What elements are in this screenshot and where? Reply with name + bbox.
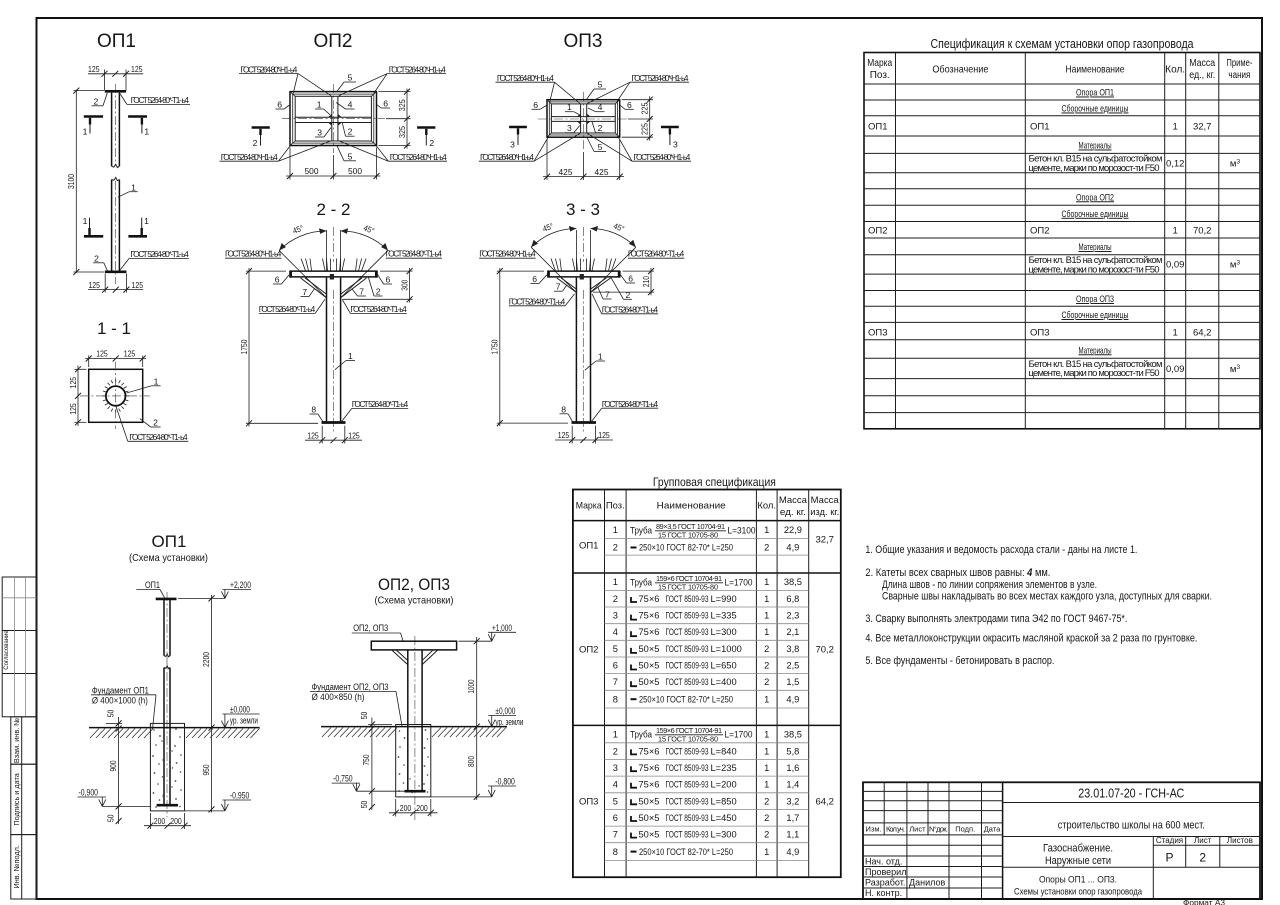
svg-text:+2,200: +2,200 xyxy=(230,580,251,590)
svg-text:210: 210 xyxy=(641,276,651,287)
svg-text:200: 200 xyxy=(416,803,428,813)
weld fillets at center xyxy=(577,113,590,124)
svg-text:Ø 400×850 (h): Ø 400×850 (h) xyxy=(312,692,365,702)
svg-text:1: 1 xyxy=(598,352,603,362)
svg-text:1: 1 xyxy=(764,577,769,587)
svg-text:ур. земли: ур. земли xyxy=(495,717,523,727)
svg-text:Опора ОП3: Опора ОП3 xyxy=(1076,294,1114,305)
svg-text:2: 2 xyxy=(1199,851,1206,865)
svg-text:3,2: 3,2 xyxy=(786,796,799,806)
top cap plate xyxy=(105,90,126,93)
svg-text:2: 2 xyxy=(253,138,258,148)
svg-text:50: 50 xyxy=(106,710,116,718)
corner mitres xyxy=(547,100,620,138)
svg-text:1,4: 1,4 xyxy=(786,780,799,790)
svg-text:ОП2: ОП2 xyxy=(1030,225,1050,236)
svg-text:строительство школы на 600 мес: строительство школы на 600 мест. xyxy=(1058,820,1205,832)
svg-text:Труба: Труба xyxy=(630,526,653,536)
vertical lines revision part xyxy=(884,782,981,899)
svg-text:2: 2 xyxy=(429,138,434,148)
horizontal lines revision part xyxy=(863,791,1003,888)
svg-text:5: 5 xyxy=(598,80,603,90)
frame outer xyxy=(290,92,377,146)
svg-text:ОП2: ОП2 xyxy=(868,225,888,236)
svg-text:ГОСТ 8509-93: ГОСТ 8509-93 xyxy=(666,813,709,823)
svg-text:1: 1 xyxy=(1173,328,1178,339)
svg-text:950: 950 xyxy=(201,764,211,775)
dimension 210 right xyxy=(593,268,654,295)
svg-text:Сборочные единицы: Сборочные единицы xyxy=(1062,104,1129,115)
svg-text:1: 1 xyxy=(613,730,618,740)
svg-text:ГОСТ 8509-93: ГОСТ 8509-93 xyxy=(666,780,709,790)
svg-text:Групповая спецификация: Групповая спецификация xyxy=(653,475,776,489)
svg-text:ОП1: ОП1 xyxy=(97,31,136,52)
group table: OP2 rows xyxy=(630,574,802,592)
svg-text:1,7: 1,7 xyxy=(786,813,799,823)
svg-text:3: 3 xyxy=(567,123,572,133)
post centerline xyxy=(333,227,335,262)
dimension 125 125 bottom xyxy=(305,426,362,444)
svg-text:ГОСТ 8509-93: ГОСТ 8509-93 xyxy=(666,830,709,840)
svg-text:4,9: 4,9 xyxy=(786,694,799,704)
svg-text:6: 6 xyxy=(386,275,391,285)
svg-text:4: 4 xyxy=(348,100,353,110)
middle vertical member xyxy=(331,96,333,141)
svg-text:ГОСТ 5264-80*-Н1- ь4: ГОСТ 5264-80*-Н1- ь4 xyxy=(240,64,297,74)
svg-text:ОП1: ОП1 xyxy=(868,122,888,133)
svg-text:L=650: L=650 xyxy=(711,661,737,671)
svg-text:ГОСТ 5264-80*-Н1- ь4: ГОСТ 5264-80*-Н1- ь4 xyxy=(480,152,534,162)
dimension 3100 (left) xyxy=(66,88,104,275)
svg-text:Подп.: Подп. xyxy=(955,825,975,834)
svg-text:8: 8 xyxy=(613,694,618,704)
svg-text:5: 5 xyxy=(348,73,353,83)
svg-text:125: 125 xyxy=(558,430,570,440)
svg-text:ГОСТ 5264-80*-Т1- ь4: ГОСТ 5264-80*-Т1- ь4 xyxy=(131,95,190,105)
svg-text:4: 4 xyxy=(613,780,618,790)
svg-text:ОП2: ОП2 xyxy=(313,31,352,52)
svg-text:Стадия: Стадия xyxy=(1156,836,1183,845)
svg-text:1: 1 xyxy=(764,730,769,740)
box Взам. инв. № xyxy=(11,717,37,764)
svg-text:6: 6 xyxy=(627,100,632,110)
svg-text:38,5: 38,5 xyxy=(784,577,802,587)
svg-text:L=335: L=335 xyxy=(711,611,737,621)
bottom base plate xyxy=(105,270,127,273)
svg-text:38,5: 38,5 xyxy=(784,730,802,740)
svg-text:2: 2 xyxy=(764,796,769,806)
dim 750 xyxy=(369,788,375,794)
svg-text:1. Общие указания и ведомость: 1. Общие указания и ведомость расхода ст… xyxy=(865,544,1137,556)
top dimension 125 125 xyxy=(88,64,143,91)
svg-text:1: 1 xyxy=(764,594,769,604)
middle horizontal member xyxy=(551,116,615,118)
svg-text:75×6: 75×6 xyxy=(639,627,660,637)
svg-text:цементе, марки по морозост-ти: цементе, марки по морозост-ти F50 xyxy=(1029,264,1160,275)
svg-text:22,9: 22,9 xyxy=(784,525,802,535)
svg-text:2: 2 xyxy=(348,127,353,137)
svg-text:Наружные сети: Наружные сети xyxy=(1045,855,1111,867)
svg-text:7: 7 xyxy=(613,830,618,840)
svg-text:Обозначение: Обозначение xyxy=(932,64,988,76)
svg-text:Сварные швы накладывать во все: Сварные швы накладывать во всех местах к… xyxy=(882,591,1212,603)
header texts xyxy=(867,58,1252,81)
svg-text:2. Катеты всех сварных швов ра: 2. Катеты всех сварных швов равны: 4 мм. xyxy=(865,567,1050,579)
svg-text:ГОСТ 5264-80*-Н1- ь4: ГОСТ 5264-80*-Н1- ь4 xyxy=(633,152,690,162)
svg-text:Спецификация к схемам установк: Спецификация к схемам установки опор газ… xyxy=(931,36,1195,51)
svg-text:Приме-: Приме- xyxy=(1226,58,1252,69)
svg-text:6: 6 xyxy=(613,813,618,823)
svg-text:70,2: 70,2 xyxy=(1193,225,1212,236)
svg-text:ГОСТ 8509-93: ГОСТ 8509-93 xyxy=(666,763,709,773)
dim 2200 / 950 line xyxy=(211,595,213,813)
svg-text:Листов: Листов xyxy=(1227,836,1253,845)
45 deg arc right xyxy=(341,231,388,251)
svg-text:ГОСТ 5264-80*-Т1- ь4: ГОСТ 5264-80*-Т1- ь4 xyxy=(129,432,188,442)
dim 50 upper xyxy=(368,724,392,726)
svg-text:ОП1: ОП1 xyxy=(152,532,187,551)
svg-text:-0,800: -0,800 xyxy=(495,777,515,787)
post top plate xyxy=(156,598,177,601)
section mark 2 left xyxy=(252,128,270,148)
svg-text:L=300: L=300 xyxy=(711,627,737,637)
svg-text:Данилов: Данилов xyxy=(909,877,945,887)
svg-text:Проверил: Проверил xyxy=(865,867,906,877)
svg-text:м3: м3 xyxy=(1230,260,1241,271)
45 deg arc left xyxy=(575,230,577,271)
top dimension 125 125 xyxy=(85,349,146,367)
svg-text:4: 4 xyxy=(598,102,603,112)
svg-text:250×10 ГОСТ 82-70* L=250: 250×10 ГОСТ 82-70* L=250 xyxy=(639,543,733,553)
svg-text:L=840: L=840 xyxy=(711,746,737,756)
crossarm xyxy=(290,270,377,272)
svg-text:1,1: 1,1 xyxy=(786,830,799,840)
svg-text:3: 3 xyxy=(613,611,618,621)
weld leader fan xyxy=(301,259,366,271)
svg-text:ОП3: ОП3 xyxy=(1030,328,1050,339)
svg-text:1: 1 xyxy=(764,746,769,756)
dimension 125 125 bottom xyxy=(555,426,613,444)
svg-text:3100: 3100 xyxy=(66,174,76,189)
foundation OP2 OP3 xyxy=(396,725,431,797)
dimension 325 325 right xyxy=(379,89,411,149)
svg-text:ГОСТ 8509-93: ГОСТ 8509-93 xyxy=(666,677,709,687)
svg-text:L=1700: L=1700 xyxy=(725,730,753,740)
dim 900 xyxy=(116,803,122,809)
svg-text:(Схема установки): (Схема установки) xyxy=(375,595,454,607)
dim 50 lower xyxy=(369,804,375,810)
section mark 2 right xyxy=(417,128,435,148)
svg-text:1000: 1000 xyxy=(466,679,476,693)
svg-text:15 ГОСТ 10705-80: 15 ГОСТ 10705-80 xyxy=(658,583,718,592)
svg-text:2: 2 xyxy=(764,661,769,671)
svg-text:1: 1 xyxy=(764,847,769,857)
svg-text:5. Все фундаменты - бетонирова: 5. Все фундаменты - бетонировать в распо… xyxy=(865,655,1054,667)
frame inner xyxy=(549,102,617,135)
middle vertical member xyxy=(580,104,582,133)
pipe circle with weld ticks xyxy=(106,386,126,406)
group table: marka cells xyxy=(579,535,834,808)
svg-text:1: 1 xyxy=(1173,122,1178,133)
svg-text:125: 125 xyxy=(598,430,610,440)
svg-text:1: 1 xyxy=(317,100,322,110)
svg-text:1: 1 xyxy=(764,611,769,621)
svg-text:15 ГОСТ 10705-80: 15 ГОСТ 10705-80 xyxy=(658,735,718,744)
svg-text:L=990: L=990 xyxy=(711,594,737,604)
svg-text:1750: 1750 xyxy=(490,339,500,354)
svg-text:2 - 2: 2 - 2 xyxy=(316,200,350,219)
frame inner xyxy=(293,94,374,143)
svg-text:425: 425 xyxy=(595,167,609,177)
svg-text:75×6: 75×6 xyxy=(639,594,660,604)
left margin stamp column xyxy=(2,577,36,899)
svg-text:125: 125 xyxy=(131,64,143,74)
svg-text:15 ГОСТ 10705-80: 15 ГОСТ 10705-80 xyxy=(658,531,718,540)
45 deg arc right xyxy=(591,228,636,247)
svg-text:Марка: Марка xyxy=(867,58,892,69)
svg-text:Длина швов - по линии сопряжен: Длина швов - по линии сопряжения элемент… xyxy=(882,579,1097,591)
svg-text:Опора ОП1: Опора ОП1 xyxy=(1076,88,1114,99)
svg-text:N°док.: N°док. xyxy=(929,825,948,834)
post centerline xyxy=(166,592,168,817)
svg-text:Кол.: Кол. xyxy=(757,500,776,511)
svg-text:1: 1 xyxy=(1173,225,1178,236)
svg-text:6,8: 6,8 xyxy=(786,594,799,604)
svg-text:45°: 45° xyxy=(291,224,304,236)
svg-text:200: 200 xyxy=(170,816,182,826)
svg-text:Согласование: Согласование xyxy=(4,630,10,670)
svg-text:4,9: 4,9 xyxy=(786,543,799,553)
plate square xyxy=(89,369,143,422)
svg-text:1: 1 xyxy=(613,577,618,587)
svg-text:1: 1 xyxy=(567,102,572,112)
svg-text:(Схема установки): (Схема установки) xyxy=(129,552,208,564)
svg-text:Кол.: Кол. xyxy=(1165,65,1185,76)
dim 50 lower xyxy=(116,818,122,824)
svg-text:3: 3 xyxy=(510,139,515,149)
svg-text:Марка: Марка xyxy=(576,500,603,511)
svg-text:125: 125 xyxy=(307,430,319,440)
dim 200 200 bottom xyxy=(144,813,191,829)
svg-text:Нач. отд.: Нач. отд. xyxy=(865,856,902,866)
section mark 3 left xyxy=(509,127,527,149)
svg-text:Наименование: Наименование xyxy=(657,500,726,511)
centerlines xyxy=(332,84,334,153)
box Подпись и дата xyxy=(11,764,37,834)
svg-text:ОП3: ОП3 xyxy=(579,797,599,808)
svg-text:4,9: 4,9 xyxy=(786,847,799,857)
svg-text:ОП2, ОП3: ОП2, ОП3 xyxy=(378,575,450,594)
svg-text:200: 200 xyxy=(400,803,412,813)
rows xyxy=(868,88,1240,380)
svg-text:2: 2 xyxy=(764,543,769,553)
svg-text:изд. кг.: изд. кг. xyxy=(810,506,839,517)
svg-text:Р: Р xyxy=(1165,851,1173,865)
svg-text:32,7: 32,7 xyxy=(1193,122,1212,133)
box Инв. №подл. xyxy=(11,835,37,899)
section mark 1 (upper left) xyxy=(83,117,103,137)
foundation OP1 xyxy=(150,723,184,811)
svg-text:50×5: 50×5 xyxy=(639,813,660,823)
svg-text:-0,900: -0,900 xyxy=(79,788,99,798)
svg-text:ГОСТ 5264-80*-Т1- ь4: ГОСТ 5264-80*-Т1- ь4 xyxy=(352,399,409,409)
svg-text:2,1: 2,1 xyxy=(786,627,799,637)
svg-text:50: 50 xyxy=(359,712,369,720)
left dimension 125 125 xyxy=(68,366,87,427)
svg-text:чания: чания xyxy=(1228,70,1250,81)
svg-text:8: 8 xyxy=(613,847,618,857)
svg-text:5: 5 xyxy=(613,644,618,654)
svg-text:1: 1 xyxy=(764,780,769,790)
45 deg arc left xyxy=(326,230,328,271)
weld leader fan xyxy=(551,259,616,271)
svg-text:5: 5 xyxy=(348,151,353,161)
svg-text:ед. кг.: ед. кг. xyxy=(780,506,806,517)
svg-text:цементе, марки по морозост-ти: цементе, марки по морозост-ти F50 xyxy=(1029,163,1160,174)
svg-text:1: 1 xyxy=(144,216,149,226)
centerlines xyxy=(583,92,585,150)
svg-text:6: 6 xyxy=(532,274,537,284)
svg-text:ГОСТ 5264-80*-Т1- ь4: ГОСТ 5264-80*-Т1- ь4 xyxy=(386,249,443,259)
svg-text:1: 1 xyxy=(764,525,769,535)
svg-text:7: 7 xyxy=(302,287,307,297)
svg-text:Наименование: Наименование xyxy=(1066,65,1125,76)
svg-text:1: 1 xyxy=(613,525,618,535)
svg-text:7: 7 xyxy=(613,677,618,687)
svg-text:ГОСТ 5264-80*-Т1- ь4: ГОСТ 5264-80*-Т1- ь4 xyxy=(602,304,659,314)
svg-text:Поз.: Поз. xyxy=(870,70,890,81)
post top stub xyxy=(580,274,584,280)
brace left xyxy=(301,278,328,298)
svg-text:3: 3 xyxy=(613,763,618,773)
svg-text:1: 1 xyxy=(764,763,769,773)
svg-text:L=850: L=850 xyxy=(711,796,737,806)
post pipe (upper segment) xyxy=(112,93,120,167)
svg-text:Масса: Масса xyxy=(811,494,840,505)
brace right xyxy=(590,278,611,293)
svg-text:200: 200 xyxy=(154,816,166,826)
dimension 300 right xyxy=(343,268,413,303)
svg-text:ГОСТ 8509-93: ГОСТ 8509-93 xyxy=(666,611,709,621)
svg-text:L=1700: L=1700 xyxy=(725,578,753,588)
base plate xyxy=(572,421,597,424)
svg-text:2: 2 xyxy=(376,287,381,297)
svg-text:1: 1 xyxy=(144,127,149,137)
svg-text:2: 2 xyxy=(764,644,769,654)
post centerline xyxy=(115,84,117,163)
svg-text:L=400: L=400 xyxy=(711,677,737,687)
svg-text:6: 6 xyxy=(275,275,280,285)
svg-text:1,5: 1,5 xyxy=(786,677,799,687)
post pipe (lower segment with break) xyxy=(112,180,120,272)
svg-text:2: 2 xyxy=(613,594,618,604)
svg-text:Сборочные единицы: Сборочные единицы xyxy=(1062,310,1129,321)
svg-text:ГОСТ 5264-80*-Т1- ь4: ГОСТ 5264-80*-Т1- ь4 xyxy=(602,399,659,409)
svg-text:Опора ОП2: Опора ОП2 xyxy=(1076,192,1114,203)
svg-text:ур. земли: ур. земли xyxy=(230,716,258,726)
crossarm xyxy=(371,641,456,650)
svg-text:50: 50 xyxy=(106,814,116,822)
svg-text:64,2: 64,2 xyxy=(1193,328,1212,339)
svg-text:125: 125 xyxy=(88,64,100,74)
svg-text:2,5: 2,5 xyxy=(786,661,799,671)
svg-text:Формат А3: Формат А3 xyxy=(1183,898,1225,905)
svg-text:ГОСТ 5264-80*-Н1- ь4: ГОСТ 5264-80*-Н1- ь4 xyxy=(390,152,447,162)
svg-text:L=300: L=300 xyxy=(711,830,737,840)
svg-text:7: 7 xyxy=(556,282,561,292)
svg-text:0,12: 0,12 xyxy=(1166,159,1185,170)
svg-text:ОП1: ОП1 xyxy=(1030,122,1050,133)
svg-text:-0,750: -0,750 xyxy=(333,774,353,784)
svg-text:50×5: 50×5 xyxy=(639,677,660,687)
svg-text:ГОСТ 8509-93: ГОСТ 8509-93 xyxy=(666,627,709,637)
svg-text:125: 125 xyxy=(96,349,108,359)
svg-text:425: 425 xyxy=(559,167,573,177)
svg-text:1: 1 xyxy=(83,127,88,137)
svg-text:1 - 1: 1 - 1 xyxy=(97,319,131,338)
svg-text:Материалы: Материалы xyxy=(1079,242,1112,253)
svg-text:±0,000: ±0,000 xyxy=(495,706,515,716)
svg-text:Труба: Труба xyxy=(630,578,653,588)
svg-text:1: 1 xyxy=(154,377,159,387)
svg-text:ГОСТ 8509-93: ГОСТ 8509-93 xyxy=(666,796,709,806)
svg-text:75×6: 75×6 xyxy=(639,746,660,756)
svg-text:5: 5 xyxy=(613,796,618,806)
svg-text:Поз.: Поз. xyxy=(606,500,625,511)
svg-text:2: 2 xyxy=(764,677,769,687)
svg-text:32,7: 32,7 xyxy=(815,535,834,546)
svg-text:6: 6 xyxy=(628,274,633,284)
svg-text:Опоры ОП1 ... ОП3.: Опоры ОП1 ... ОП3. xyxy=(1039,874,1117,885)
svg-text:1: 1 xyxy=(764,627,769,637)
svg-text:L=1000: L=1000 xyxy=(711,644,742,654)
weld fillets at center xyxy=(328,114,342,126)
svg-text:500: 500 xyxy=(348,166,362,176)
svg-text:Газоснабжение.: Газоснабжение. xyxy=(1043,843,1113,855)
dim 1000 / 800 line xyxy=(476,637,478,800)
post xyxy=(407,650,409,791)
svg-text:ГОСТ 5264-80*-Т1- ь4: ГОСТ 5264-80*-Т1- ь4 xyxy=(259,304,316,314)
header texts xyxy=(576,494,840,517)
svg-text:5,8: 5,8 xyxy=(786,746,799,756)
svg-text:6: 6 xyxy=(277,100,282,110)
svg-text:ГОСТ 5264-80*-Н1- ь4: ГОСТ 5264-80*-Н1- ь4 xyxy=(632,73,689,83)
svg-text:7: 7 xyxy=(605,290,610,300)
svg-text:4. Все металлоконструкции окра: 4. Все металлоконструкции окрасить масля… xyxy=(865,633,1197,645)
svg-text:Лист: Лист xyxy=(1194,836,1212,845)
svg-text:225: 225 xyxy=(640,102,650,114)
svg-text:2: 2 xyxy=(94,254,99,264)
svg-text:50×5: 50×5 xyxy=(639,830,660,840)
svg-text:1: 1 xyxy=(131,183,136,193)
svg-text:50×5: 50×5 xyxy=(639,661,660,671)
svg-text:ГОСТ 5264-80*-Н1- ь4: ГОСТ 5264-80*-Н1- ь4 xyxy=(389,64,446,74)
svg-text:L=235: L=235 xyxy=(711,763,737,773)
svg-text:Изм.: Изм. xyxy=(866,825,882,834)
svg-text:325: 325 xyxy=(397,99,407,111)
post centerline xyxy=(582,227,584,262)
svg-text:±0,000: ±0,000 xyxy=(230,705,250,715)
post xyxy=(575,278,577,422)
svg-text:м3: м3 xyxy=(1230,159,1241,170)
svg-text:1: 1 xyxy=(83,216,88,226)
dimension 1750 left xyxy=(490,268,568,426)
svg-text:125: 125 xyxy=(348,430,360,440)
svg-text:75×6: 75×6 xyxy=(639,611,660,621)
svg-text:300: 300 xyxy=(399,280,409,291)
svg-text:5: 5 xyxy=(598,142,603,152)
post xyxy=(164,600,170,656)
